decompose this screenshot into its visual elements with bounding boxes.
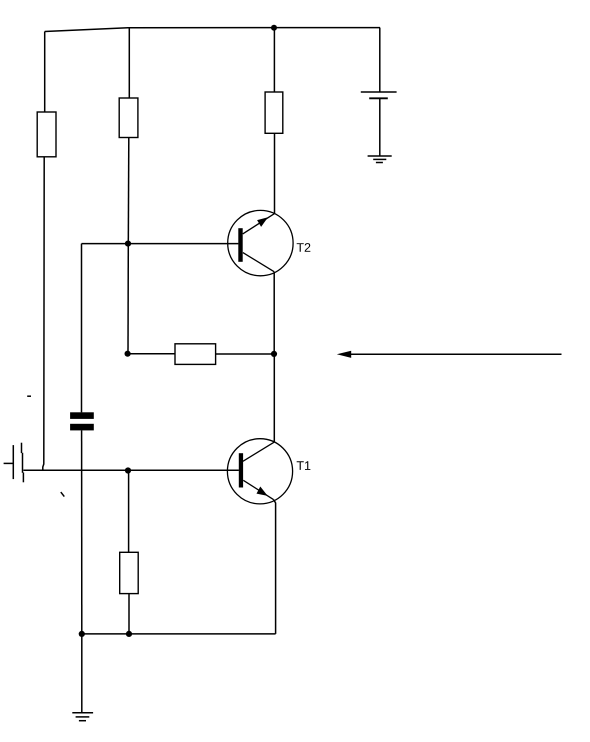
- transistor T1: [227, 439, 292, 504]
- wire top-left slanted segment: [45, 28, 129, 32]
- ground left (bottom): [72, 713, 93, 721]
- battery B2 (left): [4, 443, 24, 483]
- wire top rail: [129, 27, 380, 29]
- resistor R3 (top-right vertical): [265, 92, 283, 133]
- node top junction dot: [271, 25, 277, 31]
- wire node A to capacitor top: [82, 243, 129, 245]
- capacitor C1: [70, 412, 94, 430]
- wire T2 base (node A to base bar): [128, 243, 238, 245]
- wire left rail lower (R1 to bottom wire): [43, 157, 44, 470]
- wire node E to ground: [81, 634, 83, 713]
- wire mid rail node A to node B: [127, 244, 129, 354]
- wire battery B1 bottom lead: [379, 98, 381, 156]
- battery B1: [361, 92, 397, 98]
- node D junction dot: [126, 631, 132, 637]
- wire T1 base rail (battery B2 to base bar): [23, 469, 239, 471]
- wire T1 emitter down rail: [274, 500, 276, 634]
- stray minus mark: [27, 395, 31, 397]
- arrow (input pointer): [337, 351, 562, 358]
- wire capacitor C1 bottom lead: [81, 430, 83, 634]
- resistor R2 (mid vertical): [119, 98, 138, 138]
- label T1: [297, 461, 311, 470]
- resistor R4 (horizontal): [175, 344, 216, 365]
- wire left rail upper: [44, 32, 46, 113]
- node E junction dot: [79, 631, 85, 637]
- wire capacitor C1 top lead: [81, 244, 83, 413]
- wire mid rail upper: [128, 28, 130, 98]
- wire node C to R5: [128, 471, 130, 553]
- node A junction dot (T2 base node): [125, 241, 131, 247]
- node B junction dot (left end of R4 wire): [125, 351, 131, 357]
- wire node G to T1 collector: [273, 354, 275, 442]
- wire node B to R4: [128, 353, 175, 355]
- wire top rail corner to R3: [273, 28, 275, 92]
- transistor T2: [228, 210, 293, 275]
- wire R3 bottom lead to T2 collector: [274, 133, 276, 213]
- node G junction dot (emitter/collector rail at R4): [271, 351, 277, 357]
- wire R2 bottom lead to node A: [127, 138, 130, 244]
- label T2: [297, 243, 311, 252]
- wire R5 bottom lead to node D: [128, 594, 130, 634]
- wire T2 emitter to node G: [273, 272, 275, 354]
- wire R4 to node G: [216, 353, 274, 355]
- resistor R5 (bottom vertical): [120, 552, 139, 593]
- ground right (below B1): [368, 156, 392, 163]
- stray tick mark: [61, 492, 65, 497]
- wire bottom rail: [82, 633, 276, 635]
- node C junction dot (T1 base node): [125, 467, 131, 473]
- resistor R1 (top-left vertical): [37, 112, 56, 157]
- wire battery B1 top lead: [379, 28, 381, 92]
